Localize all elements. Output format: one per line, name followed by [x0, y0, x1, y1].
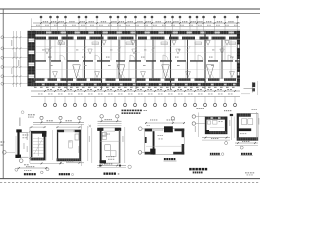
- detail 3 axis bubbles and top dims: [98, 115, 122, 126]
- stair core walls: [50, 37, 223, 79]
- detail 5 plan: [205, 117, 227, 134]
- east exterior wall (hatched): [237, 31, 240, 86]
- inner top border line: [0, 13, 260, 15]
- upper room fixtures: [58, 40, 236, 45]
- window dimension text row: [34, 87, 235, 88]
- sheet background: [0, 0, 260, 194]
- wall face lines: [33, 40, 241, 78]
- details 1-2 axis bubbles and top dims: [28, 114, 84, 128]
- south inner wall segments: [33, 78, 236, 80]
- detail 6 left dim column: [229, 114, 234, 140]
- balcony edge line: [33, 81, 241, 83]
- top dimension lines: [30, 21, 240, 29]
- detail 4 top dim: [145, 117, 185, 124]
- detail 4 axis bubbles: [138, 127, 145, 154]
- top axis bubbles row: [31, 16, 238, 31]
- detail 3 bottom dims: [97, 127, 126, 167]
- interior partition lines vertical: [45, 40, 231, 79]
- left margin axis bubbles: [1, 36, 28, 85]
- bottom border line: [0, 178, 260, 180]
- right margin detail marks: [241, 81, 258, 95]
- detail 2 right dim column: [88, 125, 91, 161]
- gutter detail note: [122, 110, 147, 114]
- outer top border line: [0, 8, 260, 10]
- bottom right page note: [245, 172, 254, 175]
- inner north wall segments (hatched): [33, 37, 240, 40]
- room text specks: [42, 50, 234, 67]
- sheet title: [189, 168, 207, 174]
- mid bearing wall segments: [33, 60, 240, 61]
- detail 5 caption: [210, 153, 224, 156]
- detail 6 bottom dims: [235, 112, 259, 149]
- west exterior wall (hatched): [28, 31, 36, 87]
- bottom dimension lines: [31, 89, 240, 96]
- unit party walls: [66, 31, 205, 86]
- detail 6 caption: [241, 153, 253, 156]
- detail 3 left dim columns: [78, 124, 91, 166]
- section bubble between details: [128, 165, 131, 168]
- detail 4 caption: [164, 158, 177, 161]
- detail 3 plan: [97, 128, 121, 164]
- south balcony wall (hatched): [33, 83, 241, 86]
- interior secondary lines: [36, 47, 236, 70]
- bottom axis bubbles row: [44, 97, 237, 107]
- detail 4 roof plan: [145, 125, 184, 154]
- bottom dashed trim line: [0, 182, 260, 184]
- door swing arcs: [48, 46, 233, 60]
- detail 1 stair plan: [31, 130, 53, 160]
- detail 5 axis bubbles and left dim: [192, 108, 231, 137]
- detail 2 caption: [59, 173, 74, 175]
- left side dimension lines: [11, 31, 21, 87]
- wall section detail far left: [15, 129, 28, 165]
- door-window triangles: [45, 49, 235, 78]
- detail 5 bottom dims: [202, 137, 230, 145]
- balcony divider stubs: [67, 86, 205, 89]
- left border line: [2, 9, 4, 179]
- left margin rotated text: [19, 118, 20, 127]
- detail 1 caption: [24, 171, 43, 175]
- detail 6 plan: [237, 109, 258, 141]
- detail 1 left dim column: [21, 111, 31, 163]
- detail 2 plan: [57, 130, 81, 161]
- left margin elevation marks: [1, 142, 16, 155]
- details 1-2 bottom dims: [15, 161, 84, 171]
- detail 3 caption: [99, 165, 121, 175]
- north exterior wall (hatched): [33, 31, 241, 35]
